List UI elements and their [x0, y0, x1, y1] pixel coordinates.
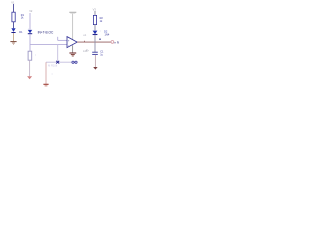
svg-text:V3: V3: [93, 7, 97, 11]
svg-text:k: k: [117, 40, 119, 44]
svg-text:M R10k: M R10k: [48, 64, 58, 68]
svg-text:IN+T-B.OC: IN+T-B.OC: [38, 30, 54, 34]
svg-text:u1: u1: [83, 33, 87, 37]
svg-text:1N4: 1N4: [105, 32, 110, 36]
svg-text:V2: V2: [29, 9, 33, 13]
svg-text:-: -: [68, 43, 69, 47]
svg-text::: :: [52, 72, 53, 76]
